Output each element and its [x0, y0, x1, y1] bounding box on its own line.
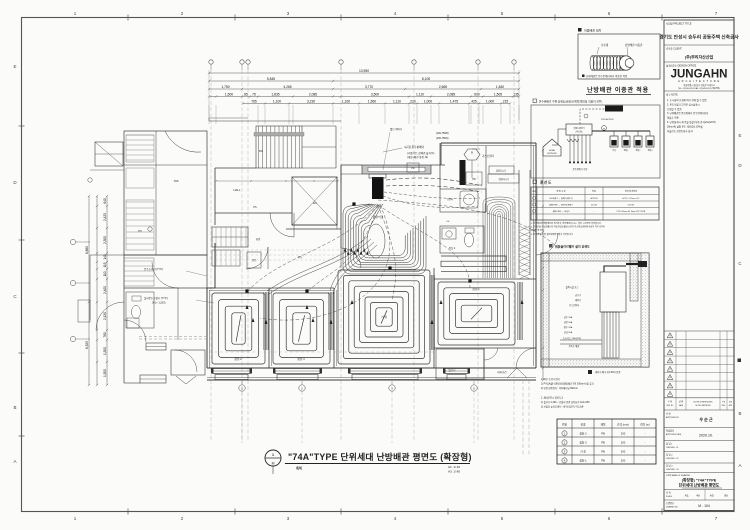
svg-text:M - 104: M - 104 [698, 504, 710, 508]
svg-text:신청할 수 있음.: 신청할 수 있음. [667, 107, 683, 111]
top dimension row smallest segments [243, 103, 510, 105]
svg-text:난방배관 이중관 적용: 난방배관 이중관 적용 [587, 86, 649, 94]
svg-text:보호재: 보호재 [601, 43, 609, 47]
distributor schematic box [531, 105, 660, 178]
top-left AD duct box [95, 142, 123, 166]
svg-text:1,160: 1,160 [342, 100, 350, 104]
svg-text:난방배관은 온수분배기까지 이음관 적용: 난방배관은 온수분배기까지 이음관 적용 [586, 74, 628, 78]
svg-text:DN: DN [259, 149, 263, 153]
svg-text:거 실: 거 실 [580, 450, 586, 454]
left wing lower rooms [124, 255, 207, 288]
svg-text:AC220V: AC220V [590, 197, 598, 200]
svg-text:이중배관 설치: 이중배관 설치 [584, 28, 602, 33]
left wing door arcs [152, 262, 178, 288]
svg-text:2,665: 2,665 [439, 85, 447, 89]
left vertical dimension lines [88, 196, 90, 385]
svg-text:발코니: 발코니 [449, 368, 456, 372]
svg-text:축척: 축척 [296, 466, 302, 471]
svg-text:DRAWING NO.: DRAWING NO. [666, 506, 679, 509]
svg-text:온수소비기 (TYP.): 온수소비기 (TYP.) [144, 267, 163, 271]
dashed zone leader curves [247, 205, 378, 292]
svg-text:NOTE & REVISIONS: NOTE & REVISIONS [694, 402, 714, 404]
svg-text:NETWORK: NETWORK [547, 153, 557, 155]
living room coil [338, 270, 430, 364]
bathroom fixtures [440, 226, 484, 253]
corridor dashed floor lines [215, 249, 340, 251]
margin grid reference letters right [738, 133, 742, 468]
svg-text:2020.10.: 2020.10. [699, 434, 713, 438]
svg-text:1,750: 1,750 [221, 85, 229, 89]
right side exterior door arc top [536, 233, 558, 255]
svg-text:침실-1: 침실-1 [579, 459, 587, 463]
supply risers between rooms [264, 292, 269, 350]
svg-text:40: 40 [696, 494, 700, 498]
svg-text:A R C H I T E C T U R E: A R C H I T E C T U R E [678, 79, 720, 83]
svg-text:B: B [738, 411, 741, 416]
sleeve install detail title [549, 244, 553, 248]
drawing title symbol [265, 450, 281, 466]
svg-text:EV: EV [313, 201, 317, 205]
revision table [664, 338, 734, 340]
svg-text:75: 75 [252, 93, 256, 97]
svg-text:침실-3: 침실-3 [579, 441, 587, 445]
svg-text:1: 1 [272, 453, 274, 457]
svg-text:TH6: TH6 [174, 179, 179, 183]
svg-text:1,505: 1,505 [494, 93, 502, 97]
supply pipe pairs through corridor to bedrooms [267, 236, 368, 291]
kitchen arrows on bundle [344, 248, 347, 252]
svg-text:5,845: 5,845 [267, 77, 275, 81]
svg-text:APPROVED DATE: APPROVED DATE [666, 433, 682, 436]
svg-text:침실 3: 침실 3 [297, 357, 305, 361]
svg-text:200: 200 [621, 441, 626, 445]
margin grid reference letters left [13, 64, 17, 464]
svg-text:대피공간: 대피공간 [497, 370, 507, 374]
svg-text:-: - [645, 451, 646, 454]
svg-text:욕실 2: 욕실 2 [449, 246, 456, 250]
svg-text:UTP-4P: UTP-4P [628, 205, 635, 207]
svg-text:DC12V: DC12V [591, 205, 598, 207]
stair flight [256, 126, 302, 168]
living entry door arc [341, 248, 361, 268]
distributor schematic [543, 139, 561, 156]
svg-text:200: 200 [621, 459, 626, 463]
svg-text:1,000: 1,000 [486, 100, 494, 104]
svg-text:(200-HWS): (200-HWS) [436, 137, 449, 140]
svg-text:길이 (m): 길이 (m) [640, 422, 650, 426]
svg-text:PS: PS [138, 229, 142, 233]
svg-text:거 실: 거 실 [381, 315, 387, 319]
gas boiler hexagon [464, 149, 480, 160]
svg-text:E: E [738, 133, 741, 138]
svg-text:침실-2: 침실-2 [579, 432, 587, 436]
svg-text:JUNGAHN: JUNGAHN [671, 69, 728, 81]
dashed manifold-to-riser curves [386, 178, 482, 186]
top dimension row segments [209, 88, 519, 90]
svg-text:20mm의 설별 온도 제어(2cf 20%율: 20mm의 설별 온도 제어(2cf 20%율 [667, 124, 703, 128]
svg-text:PB: PB [601, 441, 605, 445]
coil entry fittings [245, 289, 248, 292]
svg-text:765: 765 [251, 100, 257, 104]
right pipe chase with hatch [518, 170, 520, 275]
margin grid reference numbers top [74, 11, 718, 16]
svg-text:비고 NOTE: 비고 NOTE [666, 93, 678, 97]
bedroom2 coil [212, 293, 265, 364]
svg-text:실내온도조절기 (TYP.): 실내온도조절기 (TYP.) [144, 296, 168, 300]
title block column frame [664, 20, 734, 511]
bottom grid bubbles circled numbers [241, 381, 243, 384]
svg-text:HCTF : 0.75mm x 2C: HCTF : 0.75mm x 2C [623, 198, 641, 200]
svg-text:3,770: 3,770 [365, 85, 373, 89]
svg-text:780: 780 [103, 332, 107, 338]
dress room serpentine [441, 256, 506, 272]
svg-text:600: 600 [474, 93, 480, 97]
svg-text:SCALE: SCALE [666, 495, 673, 498]
sleeve detail pipes [600, 272, 626, 312]
svg-text:-: - [645, 442, 646, 445]
svg-text:APPROVED BY: APPROVED BY [666, 416, 680, 419]
svg-text:80: 80 [724, 494, 728, 498]
corrugated pipe icon [590, 56, 594, 70]
svg-text:우 순 근: 우 순 근 [699, 416, 713, 422]
svg-text:200: 200 [621, 450, 626, 454]
svg-text:(재질+배관 확장, M): (재질+배관 확장, M) [407, 155, 428, 159]
svg-text:CHECKED - 01: CHECKED - 01 [666, 447, 678, 449]
svg-text:4구형 온수분배기: 4구형 온수분배기 [404, 145, 425, 149]
svg-text:3,500: 3,500 [371, 93, 379, 97]
svg-text:CHECKED - 02: CHECKED - 02 [666, 458, 678, 460]
svg-text:단위세대 난방배관 평면도: 단위세대 난방배관 평면도 [679, 483, 720, 488]
svg-text:A3:: A3: [710, 494, 715, 498]
svg-text:2,085: 2,085 [447, 93, 455, 97]
svg-text:사업명 PROJECT TITLE: 사업명 PROJECT TITLE [666, 22, 692, 26]
right vertical chase lines extending below plan [522, 380, 524, 455]
svg-text:A: A [13, 459, 16, 464]
svg-text:건축주 CLIENT: 건축주 CLIENT [666, 47, 682, 51]
svg-text:1,500: 1,500 [103, 369, 107, 377]
svg-text:200: 200 [621, 432, 626, 436]
svg-text:1,100: 1,100 [273, 100, 281, 104]
svg-text:A1:: A1: [685, 494, 690, 498]
svg-text:(주)무리자산산업: (주)무리자산산업 [685, 54, 714, 60]
svg-text:M: M [272, 462, 275, 466]
svg-text:간격 (mm): 간격 (mm) [617, 422, 629, 426]
svg-text:-: - [645, 460, 646, 463]
boiler room with washer [440, 189, 486, 212]
dining oval [367, 224, 385, 258]
svg-text:재질: 재질 [601, 422, 606, 426]
svg-text:85: 85 [244, 93, 248, 97]
svg-text:2,130: 2,130 [103, 312, 107, 320]
core top roof lines [209, 120, 341, 122]
svg-text:1,560: 1,560 [368, 100, 376, 104]
svg-text:8,105: 8,105 [422, 77, 430, 81]
svg-text:PD: PD [411, 167, 415, 170]
dimension extension lines vertical dashed [210, 70, 212, 440]
svg-text:1,475: 1,475 [450, 100, 458, 104]
svg-text:4,265: 4,265 [283, 85, 291, 89]
svg-text:어울린도,조명등회사 설치.: 어울린도,조명등회사 설치. [667, 129, 694, 133]
svg-text:현관: 현관 [256, 237, 261, 241]
wiring table [531, 187, 659, 220]
svg-text:M: M [603, 129, 605, 131]
svg-text:NOTE & REVISIONS: NOTE & REVISIONS [695, 405, 710, 407]
svg-text:6,860: 6,860 [85, 246, 89, 254]
bedroom1 coil [438, 282, 515, 345]
hall interior dimension string [216, 180, 338, 182]
top dimension row 5845 8105 [209, 80, 519, 82]
left wing furniture hatch [126, 134, 154, 136]
svg-text:425: 425 [471, 100, 477, 104]
entrance hall shoe cabinets [212, 227, 248, 247]
right side dimension line of plan [542, 150, 544, 380]
svg-text:1,110: 1,110 [416, 93, 424, 97]
column grid bubbles top [209, 60, 213, 64]
svg-text:난방배관 이음관: 난방배관 이음관 [625, 43, 643, 47]
balcony windows bottom [213, 369, 250, 374]
manifold block [372, 177, 384, 199]
svg-text:115: 115 [103, 262, 107, 267]
svg-text:"74A"TYPE 단위세대 난방배관 평면도 (확장형): "74A"TYPE 단위세대 난방배관 평면도 (확장형) [288, 451, 472, 462]
kitchen gray wall band [362, 165, 431, 174]
svg-text:결 선 도: 결 선 도 [540, 180, 552, 185]
svg-text:220V AC220V: 220V AC220V [601, 118, 614, 121]
svg-text:(가열,덕트,상배관,설치,%): (가열,덕트,상배관,설치,%) [407, 151, 435, 155]
unit entry door arc [270, 213, 294, 237]
wing top entrance arc [165, 131, 201, 152]
left grid bubbles [70, 239, 75, 244]
svg-text:비흡수 적용.: 비흡수 적용. [667, 116, 680, 120]
pipe joint detail box [578, 34, 660, 79]
svg-text:1,500: 1,500 [103, 347, 107, 355]
svg-text:3,230: 3,230 [307, 100, 315, 104]
revision header row [664, 397, 734, 399]
svg-text:1,110: 1,110 [393, 100, 401, 104]
svg-text:110: 110 [103, 271, 107, 276]
elevator shaft [292, 177, 337, 225]
svg-text:3. 난방배관은 준공위에서 온수분배기상자: 3. 난방배관은 준공위에서 온수분배기상자 [667, 111, 709, 115]
unit outer walls [206, 288, 208, 368]
left neighbour wing walls [124, 131, 207, 255]
svg-text:PB: PB [601, 459, 605, 463]
wiring diagram title [533, 180, 537, 184]
balcony slab dashed line [209, 351, 434, 353]
svg-text:6,325: 6,325 [85, 341, 89, 349]
svg-text:온수분배기 주위 상세도(룸실/스위치/밸브형 적용의 경우: 온수분배기 주위 상세도(룸실/스위치/밸브형 적용의 경우) [539, 100, 602, 104]
svg-text:B: B [471, 151, 473, 155]
svg-text:관통슬리브밸브 설치 상세도: 관통슬리브밸브 설치 상세도 [555, 244, 590, 249]
distributor detail header [533, 99, 537, 103]
svg-text:1. 도시설비 신청해 의거 전체 될 수 있음.: 1. 도시설비 신청해 의거 전체 될 수 있음. [667, 98, 708, 102]
svg-text:REV. NO: REV. NO [667, 405, 674, 407]
svg-text:벨브 제어기: 벨브 제어기 [390, 127, 402, 131]
svg-text:1,840: 1,840 [496, 85, 504, 89]
svg-text:2,425: 2,425 [103, 213, 107, 221]
svg-text:A1: 1/ 40: A1: 1/ 40 [448, 465, 460, 469]
top dimension row total 13950 [209, 72, 519, 74]
vertical pipe bundle to bedroom1 [482, 203, 484, 278]
riser black blob and PD box [460, 160, 466, 185]
svg-text:CHECKED - 03: CHECKED - 03 [666, 469, 678, 471]
svg-text:(확장형) "74A"TYPE: (확장형) "74A"TYPE [682, 478, 717, 483]
svg-text:가스보일러: 가스보일러 [482, 154, 495, 158]
svg-text:E: E [13, 64, 16, 69]
svg-text:설계사무소 DESIGN OFFICE: 설계사무소 DESIGN OFFICE [666, 64, 697, 68]
balcony room bottom right [436, 349, 484, 379]
svg-text:(F.L+ 1,200): (F.L+ 1,200) [152, 302, 166, 305]
svg-text:1,000: 1,000 [424, 100, 432, 104]
svg-text:2,085: 2,085 [309, 93, 317, 97]
pipe sleeve box label [578, 28, 582, 32]
svg-text:2. 온도조절기 부착은 실시설계시: 2. 온도조절기 부착은 실시설계시 [667, 102, 700, 106]
interior partition walls [268, 288, 270, 368]
dimension short extension lines [208, 105, 210, 124]
pipe joint note [582, 75, 585, 78]
svg-text:HOME: HOME [549, 150, 556, 152]
svg-text:PD: PD [472, 178, 476, 181]
left wing bathroom fixtures [126, 292, 154, 328]
left wing lower counter hatch [124, 258, 154, 286]
svg-text:HALL: HALL [234, 188, 241, 192]
PD boxes [407, 163, 419, 172]
svg-text:PS: PS [253, 206, 257, 209]
svg-text:640: 640 [103, 198, 107, 204]
svg-text:침실 2: 침실 2 [234, 357, 242, 361]
material table [557, 419, 656, 464]
svg-text:번호: 번호 [562, 422, 567, 426]
svg-text:2,300: 2,300 [103, 236, 107, 244]
svg-text:실명: 실명 [581, 422, 586, 426]
svg-text:220: 220 [410, 100, 416, 104]
left edge neighbour wall stubs [90, 254, 124, 256]
hall walls [215, 167, 256, 169]
svg-text:215: 215 [503, 100, 509, 104]
svg-text:REV.: REV. [722, 405, 726, 407]
svg-text:경기도 안성시 승두리 공동주택 신축공사: 경기도 안성시 승두리 공동주택 신축공사 [659, 34, 739, 41]
svg-text:B: B [13, 405, 16, 410]
svg-text:A: A [738, 463, 741, 468]
svg-text:13,950: 13,950 [359, 69, 369, 73]
manifold home-run loop bundle kitchen [343, 204, 426, 274]
margin grid reference numbers bottom [74, 516, 718, 521]
bedroom3 coil [273, 293, 330, 364]
svg-text:-: - [645, 433, 646, 436]
svg-text:PB: PB [601, 432, 605, 436]
flow arrows labels [246, 305, 249, 309]
svg-text:1,835: 1,835 [271, 93, 279, 97]
svg-text:4. 난방설계시 세 주물 일괄 (사용,관사)2cu(2C: 4. 난방설계시 세 주물 일괄 (사용,관사)2cu(2CH) [667, 120, 716, 124]
svg-text:(200-HWR): (200-HWR) [436, 132, 449, 135]
svg-text:A3: 1/ 80: A3: 1/ 80 [448, 470, 460, 474]
svg-text:1,500: 1,500 [225, 93, 233, 97]
svg-text:침실 1: 침실 1 [472, 287, 480, 291]
svg-text:PB: PB [601, 450, 605, 454]
svg-text:2,400: 2,400 [103, 286, 107, 294]
top dimension row small segments [209, 96, 519, 98]
entrance door arc [246, 247, 268, 269]
